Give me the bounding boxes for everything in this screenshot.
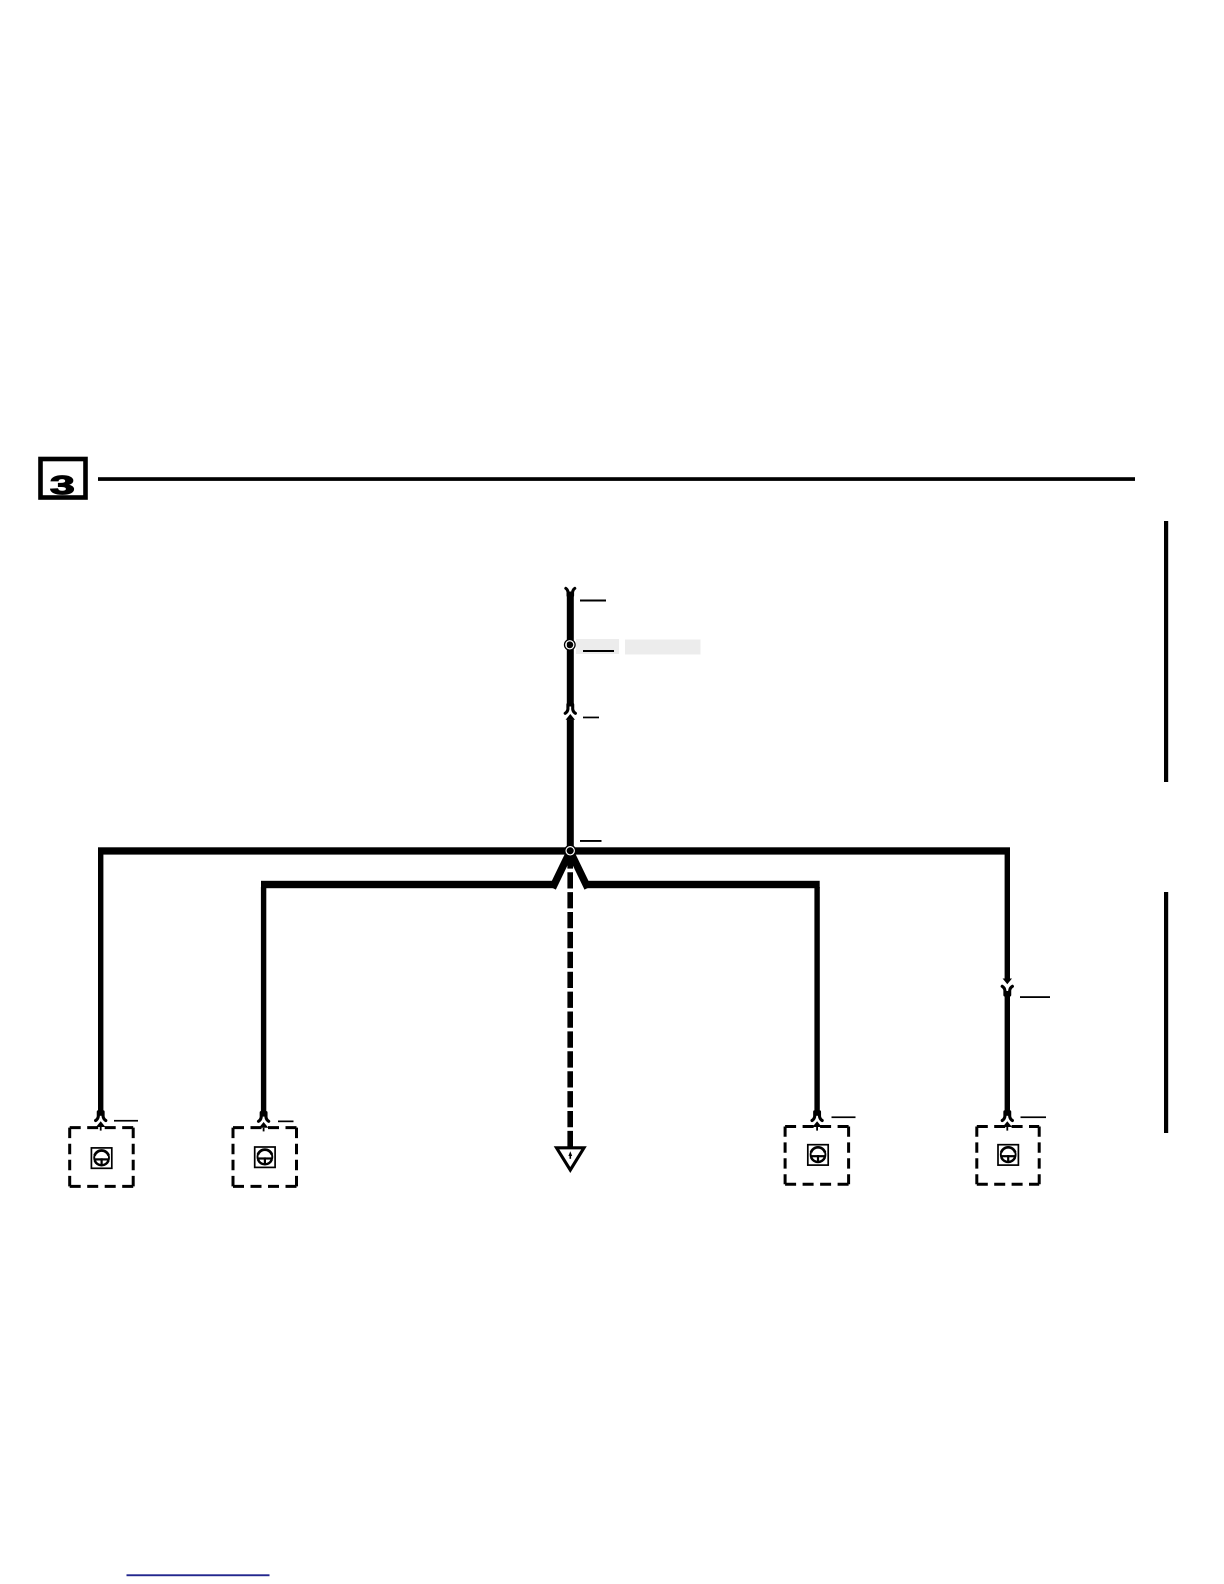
label tick t5 bbox=[1020, 996, 1050, 998]
drop wire 4 upper segment bbox=[1005, 854, 1010, 979]
wire 1 bottom connector bbox=[96, 1112, 106, 1131]
right margin bar upper bbox=[1164, 521, 1168, 782]
label tick t3 bbox=[583, 717, 599, 719]
wire 4 inline connector bbox=[1002, 976, 1012, 996]
header rule bbox=[98, 477, 1135, 481]
connector clip node on central wire bbox=[566, 641, 574, 649]
dashed ground reference wire bbox=[567, 858, 573, 1148]
ground symbol 1 bbox=[91, 1148, 111, 1168]
drop wire 4 lower segment bbox=[1005, 991, 1010, 1116]
label tick b4 bbox=[1021, 1116, 1047, 1118]
label tick b2 bbox=[278, 1121, 294, 1123]
drop wire 1 (far left) bbox=[98, 854, 103, 1116]
label tick t1 bbox=[580, 600, 606, 602]
wire 2 bottom connector bbox=[259, 1113, 269, 1132]
wire 3 bottom connector bbox=[812, 1112, 822, 1131]
right margin bar lower bbox=[1164, 892, 1168, 1133]
label tick b1 bbox=[114, 1120, 138, 1122]
drop wire 3 bbox=[814, 887, 819, 1116]
grey redaction box 1 bbox=[576, 639, 619, 654]
bus 1 horizontal bbox=[98, 847, 1010, 854]
bus 2 left horizontal bbox=[261, 881, 553, 888]
ground symbol 4 bbox=[998, 1145, 1018, 1165]
label tick t4 at junction bbox=[580, 840, 602, 842]
tiny arrow inside triangle bbox=[568, 1151, 572, 1156]
label tick t2 bbox=[583, 650, 614, 652]
ground symbol 2 bbox=[255, 1147, 275, 1167]
ground component box 3 (dashed) bbox=[785, 1127, 849, 1185]
central supply wire lower segment bbox=[567, 720, 574, 852]
drop wire 2 bbox=[261, 887, 266, 1117]
label tick b3 bbox=[832, 1116, 856, 1118]
bus 2 tent right diagonal bbox=[572, 855, 588, 888]
footer link line bbox=[127, 1574, 270, 1576]
grey redaction box 2 bbox=[625, 640, 701, 655]
ground component box 4 (dashed) bbox=[977, 1127, 1039, 1185]
fork terminal at top of central wire bbox=[566, 588, 575, 595]
central supply wire upper segment bbox=[567, 592, 574, 707]
ground symbol 3 bbox=[808, 1145, 828, 1165]
ground component box 2 (dashed) bbox=[233, 1128, 297, 1187]
bus 2 tent left diagonal bbox=[553, 855, 569, 888]
junction node circle bbox=[566, 847, 575, 856]
svg-text:3: 3 bbox=[50, 470, 75, 499]
ground distribution triangle bbox=[557, 1148, 585, 1170]
wire 4 bottom connector bbox=[1002, 1112, 1012, 1131]
inline connector on central wire bbox=[565, 705, 575, 724]
bus 2 right horizontal bbox=[587, 881, 820, 888]
ground component box 1 (dashed) bbox=[70, 1128, 134, 1187]
index box "3" bbox=[41, 459, 86, 500]
